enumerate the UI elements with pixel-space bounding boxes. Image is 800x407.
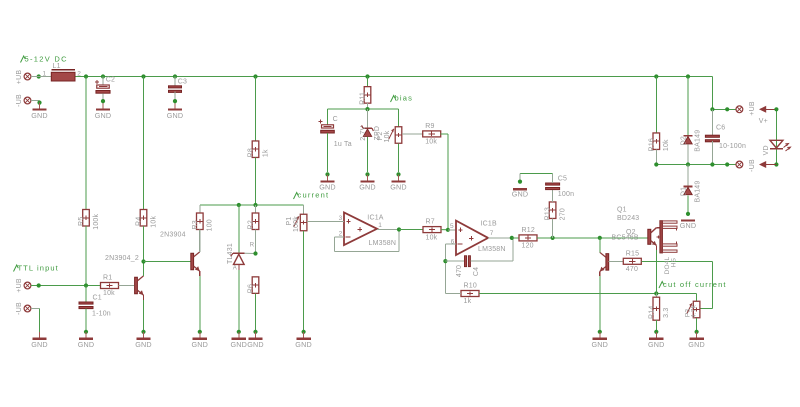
svg-text:R1: R1 — [103, 275, 112, 282]
svg-text:100: 100 — [207, 219, 214, 231]
svg-text:LM358N: LM358N — [369, 240, 397, 247]
svg-text:1: 1 — [43, 70, 47, 77]
svg-text:1k: 1k — [262, 149, 269, 157]
svg-text:100k: 100k — [293, 216, 300, 232]
svg-text:R4: R4 — [136, 217, 143, 226]
svg-text:GND: GND — [680, 221, 697, 230]
svg-text:1: 1 — [378, 222, 382, 229]
svg-text:TTL input: TTL input — [18, 263, 59, 272]
svg-text:R11: R11 — [360, 92, 367, 105]
svg-text:GND: GND — [648, 340, 665, 349]
svg-text:270: 270 — [560, 208, 567, 220]
svg-text:C2: C2 — [106, 77, 115, 84]
svg-text:R16: R16 — [648, 138, 655, 151]
svg-text:R13: R13 — [545, 207, 552, 220]
svg-text:GND: GND — [359, 183, 376, 192]
svg-text:2: 2 — [77, 70, 81, 77]
svg-text:C5: C5 — [558, 175, 567, 182]
svg-text:R14: R14 — [648, 305, 655, 318]
svg-text:GND: GND — [95, 111, 112, 120]
svg-text:D2: D2 — [681, 136, 688, 145]
svg-text:C4: C4 — [473, 267, 480, 276]
svg-text:cut off current: cut off current — [663, 280, 727, 289]
svg-text:2N3904_2: 2N3904_2 — [105, 255, 139, 262]
svg-text:VD: VD — [763, 145, 770, 155]
svg-text:10k: 10k — [663, 139, 670, 151]
svg-text:R2: R2 — [248, 220, 255, 229]
svg-text:10k: 10k — [384, 130, 391, 142]
svg-text:LM358N: LM358N — [478, 246, 506, 253]
svg-text:Q1: Q1 — [617, 206, 627, 213]
svg-text:R7: R7 — [426, 219, 435, 226]
svg-text:R: R — [250, 243, 255, 249]
svg-text:BD243: BD243 — [617, 215, 639, 222]
svg-text:10k: 10k — [103, 290, 115, 297]
svg-text:470: 470 — [456, 265, 463, 277]
svg-text:5: 5 — [450, 223, 454, 230]
svg-text:R10: R10 — [464, 283, 477, 290]
svg-text:R3: R3 — [192, 220, 199, 229]
svg-text:GND: GND — [688, 340, 705, 349]
svg-text:BA149: BA149 — [695, 180, 702, 202]
svg-text:+UB: +UB — [16, 278, 23, 293]
svg-text:3: 3 — [339, 215, 343, 222]
svg-text:10k: 10k — [425, 139, 437, 146]
svg-text:C: C — [333, 116, 338, 123]
svg-text:IC1A: IC1A — [367, 214, 383, 221]
svg-text:10-100n: 10-100n — [719, 143, 746, 150]
svg-text:2.7V: 2.7V — [360, 125, 367, 140]
svg-text:120: 120 — [522, 243, 534, 250]
svg-text:BA149: BA149 — [695, 130, 702, 152]
svg-text:GND: GND — [390, 183, 407, 192]
svg-text:IC1B: IC1B — [481, 220, 497, 227]
svg-text:A: A — [233, 266, 237, 272]
svg-text:GND: GND — [592, 340, 609, 349]
svg-text:R6: R6 — [248, 284, 255, 293]
svg-text:7: 7 — [490, 230, 494, 237]
svg-text:10k: 10k — [150, 216, 157, 228]
svg-text:GND: GND — [247, 340, 264, 349]
svg-text:P1: P1 — [286, 217, 293, 226]
svg-text:GND: GND — [295, 340, 312, 349]
svg-text:D1: D1 — [681, 187, 688, 196]
svg-text:C1: C1 — [93, 295, 102, 302]
svg-text:+UB: +UB — [749, 101, 756, 116]
svg-text:-UB: -UB — [749, 159, 756, 172]
svg-text:R9: R9 — [425, 123, 434, 130]
svg-text:10k: 10k — [426, 234, 438, 241]
svg-text:100n: 100n — [558, 191, 574, 198]
svg-text:GND: GND — [512, 190, 529, 199]
svg-text:GND: GND — [167, 111, 184, 120]
svg-text:+UB: +UB — [16, 70, 23, 85]
svg-text:TL431: TL431 — [227, 243, 234, 264]
svg-text:1u Ta: 1u Ta — [334, 141, 352, 148]
svg-text:R8: R8 — [248, 148, 255, 157]
svg-text:BC546B: BC546B — [612, 235, 639, 242]
svg-text:current: current — [298, 191, 330, 200]
svg-text:3.3: 3.3 — [663, 308, 670, 318]
svg-text:1-10n: 1-10n — [92, 311, 111, 318]
svg-text:GND: GND — [192, 340, 209, 349]
svg-text:L1: L1 — [53, 63, 61, 70]
svg-text:C6: C6 — [716, 125, 725, 132]
svg-text:2N3904: 2N3904 — [160, 232, 186, 239]
svg-text:bias: bias — [395, 94, 414, 103]
svg-text:5-12V DC: 5-12V DC — [25, 54, 68, 63]
svg-text:GND: GND — [231, 340, 248, 349]
svg-text:100k: 100k — [93, 213, 100, 229]
svg-text:4.7k: 4.7k — [690, 304, 697, 318]
svg-text:R12: R12 — [522, 227, 535, 234]
svg-text:C3: C3 — [178, 79, 187, 86]
svg-text:R15: R15 — [626, 250, 639, 257]
svg-text:GND: GND — [31, 111, 48, 120]
svg-text:470: 470 — [626, 266, 638, 273]
svg-text:GND: GND — [135, 340, 152, 349]
svg-text:-UB: -UB — [16, 94, 23, 107]
svg-text:-UB: -UB — [16, 302, 23, 315]
svg-text:R5: R5 — [78, 217, 85, 226]
svg-text:1k: 1k — [464, 298, 472, 305]
svg-text:6: 6 — [451, 238, 455, 245]
svg-text:2: 2 — [339, 231, 343, 238]
svg-text:GND: GND — [78, 340, 95, 349]
svg-text:HS: HS — [670, 257, 677, 267]
svg-text:V+: V+ — [759, 118, 768, 125]
svg-text:GND: GND — [31, 340, 48, 349]
